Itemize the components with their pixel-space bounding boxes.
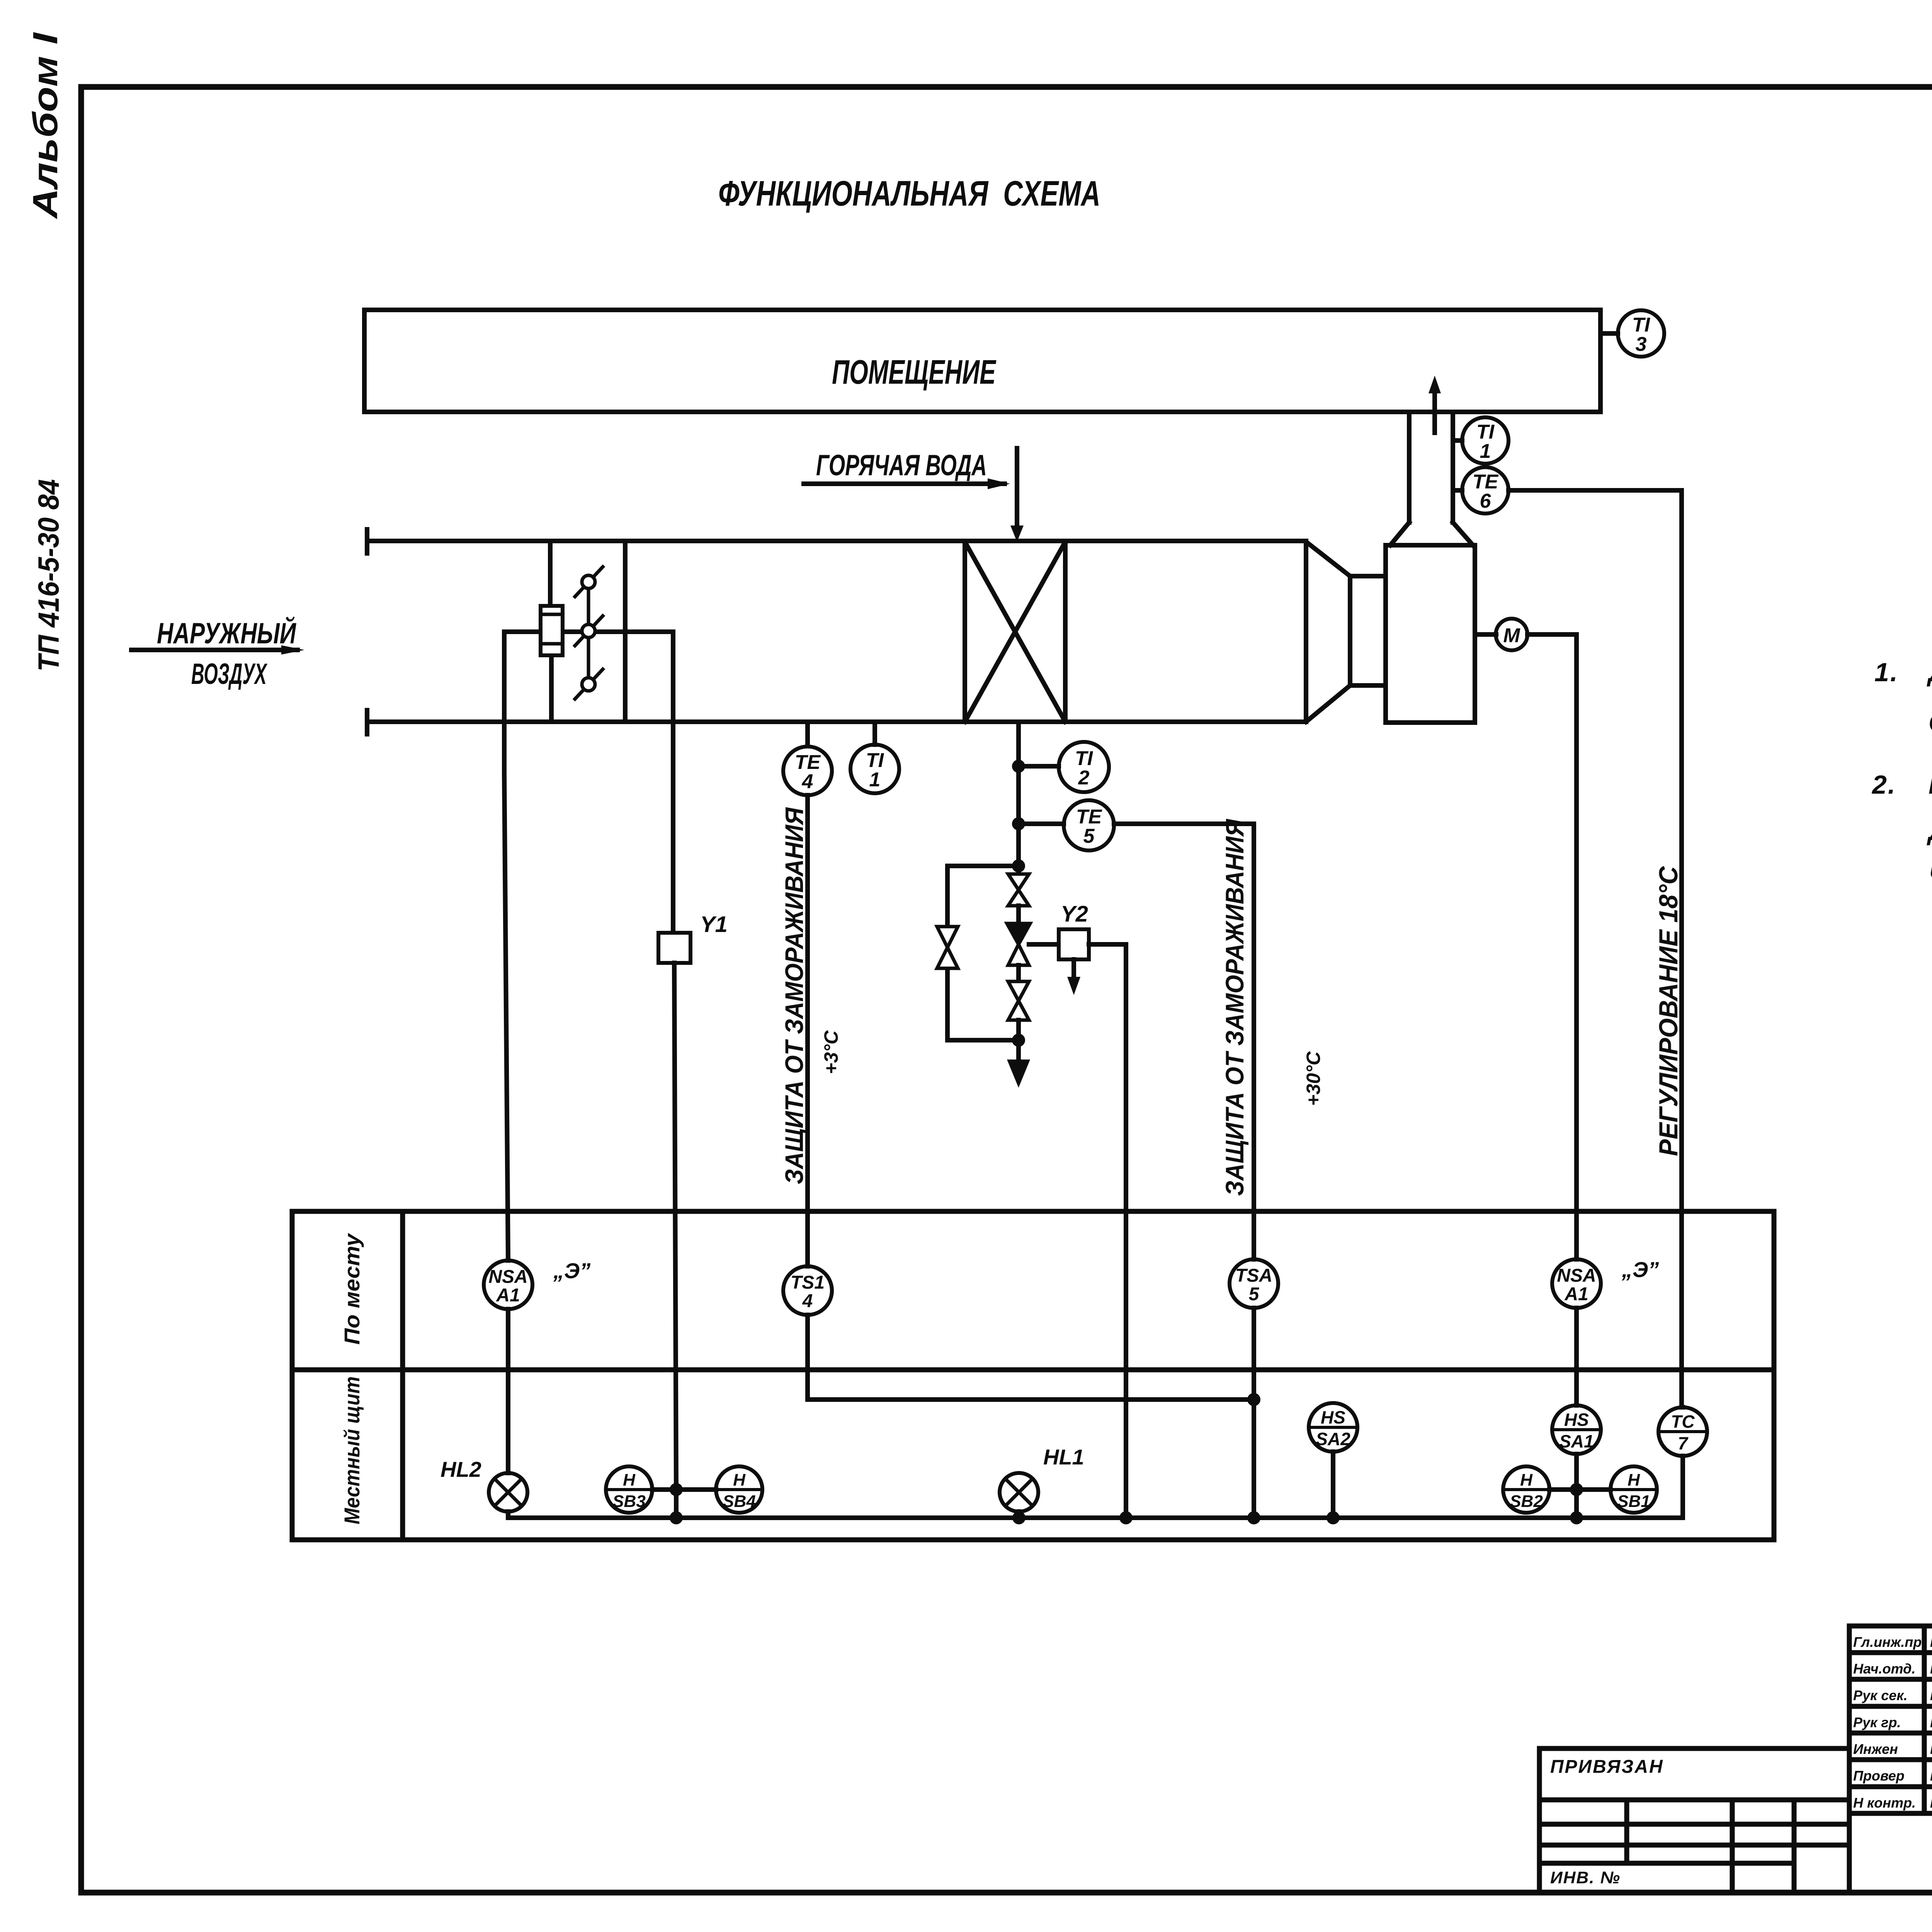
svg-text:Y1: Y1 xyxy=(700,912,728,937)
svg-text:ТSА: ТSА xyxy=(1235,1265,1272,1286)
heater coil xyxy=(965,542,1065,722)
wire TE6 to regulation line xyxy=(1509,490,1682,1407)
svg-text:Н контр.: Н контр. xyxy=(1853,1795,1916,1811)
svg-text:Рук сек.: Рук сек. xyxy=(1853,1687,1908,1703)
svg-text:+30°С: +30°С xyxy=(1303,1051,1324,1106)
button H SB1 xyxy=(1611,1466,1657,1513)
button H SB4 xyxy=(716,1466,762,1513)
svg-text:NSA: NSA xyxy=(488,1267,527,1287)
supply duct bottom wall xyxy=(367,710,1306,734)
instrument TE5 xyxy=(1064,800,1114,850)
pipe V3 to drain node xyxy=(1016,1020,1021,1040)
panel table outline xyxy=(292,1211,1774,1540)
wire TS1 to TSA xyxy=(808,1315,1254,1400)
valve V3 xyxy=(1008,981,1029,1020)
solenoid Y2 xyxy=(1029,929,1089,959)
svg-text:РЕГУЛИРОВАНИЕ 18°С: РЕГУЛИРОВАНИЕ 18°С xyxy=(1654,866,1683,1156)
svg-text:Бобнева: Бобнева xyxy=(1930,1687,1932,1703)
svg-text:Альбом I: Альбом I xyxy=(26,32,65,219)
lamp HL1 xyxy=(1000,1473,1038,1518)
svg-text:SA1: SA1 xyxy=(1559,1431,1594,1451)
svg-text:„Э”: „Э” xyxy=(553,1259,590,1283)
instrument TI3 xyxy=(1600,310,1664,357)
svg-text:Бобнева: Бобнева xyxy=(1930,1795,1932,1811)
damper actuator body xyxy=(541,606,563,655)
hot water pipe below duct xyxy=(1016,722,1021,876)
wire TE5 to freeze-protection-30 line xyxy=(1114,824,1254,1259)
instrument TC 7 xyxy=(1658,1407,1707,1518)
louver blade 1 xyxy=(575,567,603,597)
button H SB3 xyxy=(606,1466,652,1513)
wire left drop to local panel xyxy=(504,632,508,1260)
wire Y1 to panel xyxy=(674,963,676,1490)
bypass pipe left xyxy=(947,866,1019,1040)
svg-text:SВ4: SВ4 xyxy=(723,1492,756,1511)
panel bus wire xyxy=(508,1515,1682,1520)
louver axis xyxy=(587,582,590,684)
svg-text:Н: Н xyxy=(733,1471,746,1490)
damper section wall xyxy=(623,541,628,722)
wire Y2 to panel xyxy=(1089,944,1126,1518)
svg-text:2: 2 xyxy=(1078,767,1090,789)
svg-text:4: 4 xyxy=(802,770,813,793)
svg-text:1: 1 xyxy=(1480,440,1491,463)
svg-text:Н: Н xyxy=(1628,1471,1640,1490)
freeze protection +30 label (rotated) xyxy=(1220,818,1324,1196)
notes text xyxy=(1871,657,1932,890)
fan inlet xyxy=(1350,576,1386,685)
room box (Помещение) xyxy=(364,310,1600,412)
svg-text:SВ2: SВ2 xyxy=(1510,1492,1543,1511)
wire TSA down to bus xyxy=(1252,1308,1256,1518)
duct-to-fan transition xyxy=(1306,542,1350,722)
row label mestny shchit (rotated) xyxy=(340,1376,364,1524)
svg-text:Местный щит: Местный щит xyxy=(340,1376,364,1524)
album label (rotated) xyxy=(26,32,65,219)
svg-text:ИНВ. №: ИНВ. № xyxy=(1550,1868,1621,1887)
bus junction dots xyxy=(670,1511,1583,1524)
svg-text:ШКАФ УПРАВЛЕНИЯ „ЯУ”, ОБОЗНАЧ: ШКАФ УПРАВЛЕНИЯ „ЯУ”, ОБОЗНАЧЕННЫЙ ИН- xyxy=(1929,769,1932,799)
supply duct top wall xyxy=(367,529,1306,553)
svg-text:Y2: Y2 xyxy=(1061,901,1088,927)
svg-text:SA2: SA2 xyxy=(1316,1429,1350,1449)
svg-text:ТП 416-5-30 84: ТП 416-5-30 84 xyxy=(32,479,65,672)
svg-text:Иванов: Иванов xyxy=(1930,1741,1932,1757)
svg-text:Рыбушкина: Рыбушкина xyxy=(1930,1714,1932,1730)
wire NSA right to SA1 to bus xyxy=(1574,1308,1579,1518)
svg-text:Гл.инж.пр.: Гл.инж.пр. xyxy=(1853,1634,1925,1650)
drawing title xyxy=(718,174,1100,213)
svg-text:А1: А1 xyxy=(496,1285,520,1306)
wire M to panel xyxy=(1527,634,1577,1259)
svg-text:С ЛИСТАМИ АОВ1-3;4: С ЛИСТАМИ АОВ1-3;4 xyxy=(1929,708,1932,737)
title block names xyxy=(1853,1634,1932,1811)
svg-text:ТС: ТС xyxy=(1671,1412,1695,1432)
svg-text:2.: 2. xyxy=(1871,770,1896,799)
instrument NSA A1 right xyxy=(1552,1259,1601,1308)
svg-text:Рук гр.: Рук гр. xyxy=(1853,1714,1901,1730)
svg-text:1.: 1. xyxy=(1874,658,1899,687)
svg-text:HS: HS xyxy=(1564,1410,1589,1430)
hot water inlet arrow xyxy=(1010,448,1024,542)
svg-text:NSA: NSA xyxy=(1557,1265,1596,1286)
svg-text:Провер: Провер xyxy=(1853,1768,1905,1784)
svg-text:Вычерова: Вычерова xyxy=(1930,1768,1932,1784)
svg-text:+3°С: +3°С xyxy=(820,1030,842,1074)
svg-text:НАРУЖНЫЙ: НАРУЖНЫЙ xyxy=(157,616,296,650)
instrument TSA 5 xyxy=(1230,1259,1278,1308)
svg-text:По месту: По месту xyxy=(340,1233,364,1345)
svg-text:4: 4 xyxy=(802,1291,813,1311)
node bypass top xyxy=(947,859,1025,872)
svg-text:3: 3 xyxy=(1636,333,1647,355)
wire SB3-SB4 junction xyxy=(652,1487,716,1492)
svg-text:SВ1: SВ1 xyxy=(1617,1492,1650,1511)
svg-text:Инжен: Инжен xyxy=(1853,1741,1898,1757)
svg-text:SВ3: SВ3 xyxy=(612,1492,646,1511)
instrument TE4 xyxy=(783,722,832,795)
title block outer xyxy=(1849,1626,1932,1893)
drain node xyxy=(1012,1034,1025,1047)
svg-text:5: 5 xyxy=(1083,825,1095,847)
instrument TI2 xyxy=(1059,742,1109,792)
solenoid Y1 xyxy=(658,933,690,963)
svg-text:Н: Н xyxy=(623,1471,636,1490)
wire SB2-SB1 junction xyxy=(1549,1487,1611,1492)
svg-text:„Э”: „Э” xyxy=(1621,1257,1659,1282)
svg-text:ТS1: ТS1 xyxy=(791,1272,825,1293)
svg-text:1: 1 xyxy=(869,769,881,791)
svg-text:6: 6 xyxy=(1480,490,1492,512)
svg-text:М: М xyxy=(1503,624,1520,647)
outside air label xyxy=(157,616,296,690)
bypass frame top xyxy=(504,629,673,634)
button H SB2 xyxy=(1503,1466,1549,1513)
svg-text:ГОРЯЧАЯ ВОДА: ГОРЯЧАЯ ВОДА xyxy=(816,449,987,482)
freeze protection +3 label (rotated) xyxy=(780,807,842,1184)
pipe between V1 V2 xyxy=(1016,906,1021,923)
svg-text:HS: HS xyxy=(1321,1407,1345,1427)
node hot water / TE5 xyxy=(1012,817,1064,830)
svg-text:ЗАЩИТА ОТ ЗАМОРАЖИВАНИЯ: ЗАЩИТА ОТ ЗАМОРАЖИВАНИЯ xyxy=(780,807,808,1184)
motor M xyxy=(1475,619,1527,650)
duct end wall xyxy=(1304,542,1308,722)
damper drop wire xyxy=(550,541,551,722)
svg-text:ЗАЩИТА ОТ ЗАМОРАЖИВАНИЯ: ЗАЩИТА ОТ ЗАМОРАЖИВАНИЯ xyxy=(1220,818,1249,1196)
instrument TE6 xyxy=(1453,467,1509,514)
control valve V2 with Y2 xyxy=(1007,923,1030,965)
bypass valve xyxy=(937,927,958,968)
fan body xyxy=(1386,545,1475,723)
row label po mestu (rotated) xyxy=(340,1233,364,1345)
svg-text:7: 7 xyxy=(1678,1433,1689,1453)
instrument TS1 4 xyxy=(783,1266,832,1315)
louver blade 3 xyxy=(575,669,603,699)
svg-text:ЧЕСКОЙ ЧАСТИ ПРОЕКТА.: ЧЕСКОЙ ЧАСТИ ПРОЕКТА. xyxy=(1929,860,1932,890)
instrument HS SA2 xyxy=(1309,1403,1357,1518)
instrument TI1 (duct) xyxy=(850,722,899,793)
valve V1 xyxy=(1008,874,1029,906)
svg-text:Рытак: Рытак xyxy=(1930,1634,1932,1650)
svg-text:Н: Н xyxy=(1520,1471,1533,1490)
Y2 drain arrow xyxy=(1067,959,1080,995)
wire TE4 to panel xyxy=(805,795,810,1266)
svg-text:Венин: Венин xyxy=(1930,1661,1932,1677)
regulation 18C label (rotated) xyxy=(1654,866,1683,1156)
hot water label xyxy=(816,449,987,482)
doc code label (rotated) xyxy=(32,479,65,672)
svg-text:HL1: HL1 xyxy=(1043,1445,1084,1469)
lamp HL2 xyxy=(489,1309,527,1518)
instrument NSA A1 left xyxy=(484,1260,532,1309)
louver blade 2 xyxy=(575,616,603,646)
fan hood xyxy=(1390,522,1473,545)
pipe between V2 V3 xyxy=(1016,965,1021,981)
svg-text:HL2: HL2 xyxy=(440,1457,481,1481)
linked box xyxy=(1539,1748,1849,1893)
exhaust stack wires xyxy=(1409,412,1453,522)
drain arrow xyxy=(1007,1040,1030,1088)
svg-text:ПРИВЯЗАН: ПРИВЯЗАН xyxy=(1550,1757,1664,1777)
svg-text:ФУНКЦИОНАЛЬНАЯ СХЕМА: ФУНКЦИОНАЛЬНАЯ СХЕМА xyxy=(718,174,1100,213)
instrument TI1 (stack) xyxy=(1453,417,1509,464)
svg-text:ВОЗДУХ: ВОЗДУХ xyxy=(191,658,268,690)
svg-text:ПОМЕЩЕНИЕ: ПОМЕЩЕНИЕ xyxy=(832,353,997,391)
svg-text:Нач.отд.: Нач.отд. xyxy=(1853,1661,1915,1677)
node hot water / TI2 xyxy=(1012,760,1059,773)
instrument HS SA1 xyxy=(1552,1405,1601,1454)
svg-text:5: 5 xyxy=(1249,1284,1260,1304)
svg-text:А1: А1 xyxy=(1564,1284,1588,1304)
exhaust air arrow xyxy=(1429,376,1441,433)
wire right drop to Y1 xyxy=(671,632,675,933)
